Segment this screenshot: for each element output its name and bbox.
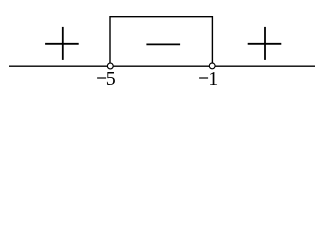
- label -1: [199, 68, 218, 90]
- number line: [9, 65, 315, 67]
- svg-text:1: 1: [208, 68, 218, 90]
- open circle at -1: [209, 63, 215, 69]
- svg-text:5: 5: [106, 68, 116, 90]
- plus sign right region: [248, 27, 282, 60]
- interval box from -5 to -1: [110, 17, 212, 64]
- label -5: [97, 68, 116, 90]
- plus sign left region: [45, 27, 79, 60]
- open circle at -5: [107, 63, 113, 69]
- minus sign middle region: [146, 43, 180, 45]
- sign chart diagram: [0, 0, 331, 98]
